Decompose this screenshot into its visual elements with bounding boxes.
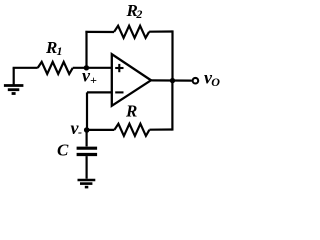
node v+ <box>84 65 89 70</box>
wire <box>87 129 115 131</box>
op-amp U1 <box>112 54 151 106</box>
wire <box>85 31 114 33</box>
wire <box>171 30 173 80</box>
ground <box>4 68 24 94</box>
svg-text:+: + <box>90 73 97 87</box>
wire <box>85 31 87 68</box>
wire <box>13 67 38 69</box>
terminal vO <box>193 78 199 84</box>
svg-text:O: O <box>211 75 220 89</box>
wire <box>149 30 172 32</box>
capacitor C <box>77 148 98 154</box>
svg-text:-: - <box>78 125 82 139</box>
wire <box>73 67 112 69</box>
wire <box>171 81 173 131</box>
wire <box>151 79 192 81</box>
wire <box>85 130 87 146</box>
node v- <box>84 127 90 133</box>
svg-text:2: 2 <box>135 7 142 21</box>
wire <box>86 92 88 130</box>
resistor R <box>114 124 149 136</box>
wire <box>87 91 112 93</box>
svg-text:R: R <box>125 101 137 120</box>
node output junction <box>170 78 175 83</box>
wire <box>149 128 172 130</box>
wire <box>85 156 87 179</box>
resistor R2 <box>114 26 149 38</box>
svg-text:C: C <box>57 140 69 159</box>
svg-text:R: R <box>45 38 57 57</box>
ground <box>78 180 96 187</box>
resistor R1 <box>38 62 73 74</box>
svg-text:1: 1 <box>57 44 63 58</box>
